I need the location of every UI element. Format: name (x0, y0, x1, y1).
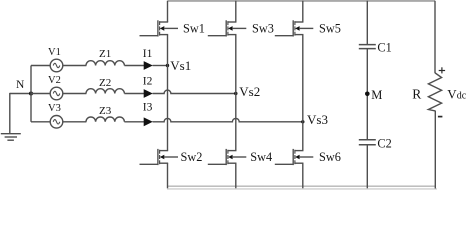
svg-text:Sw4: Sw4 (250, 150, 272, 164)
svg-text:V3: V3 (48, 103, 61, 114)
svg-text:Z1: Z1 (99, 48, 111, 60)
resistor R (428, 73, 441, 111)
svg-text:C2: C2 (377, 137, 391, 151)
wire V3 to Z3 (63, 121, 87, 123)
transistor Sw6 (292, 149, 294, 165)
svg-text:Sw5: Sw5 (319, 22, 341, 36)
svg-text:Z3: Z3 (99, 105, 112, 117)
current arrow I3 (144, 117, 153, 126)
svg-text:V1: V1 (48, 47, 61, 58)
wire Sw2 source to bottom bus (167, 163, 169, 188)
wire bus to V2 (31, 93, 50, 95)
svg-text:Vs1: Vs1 (170, 58, 191, 73)
node N (29, 92, 33, 96)
svg-text:Vs3: Vs3 (307, 112, 328, 127)
wire bus to Sw5 drain (302, 1, 304, 22)
svg-text:Sw1: Sw1 (183, 22, 205, 36)
node M (365, 92, 370, 97)
transistor Sw2 (157, 149, 159, 165)
wire bus to Sw1 drain (167, 1, 169, 22)
ac source V3 (50, 116, 63, 129)
svg-text:V2: V2 (48, 75, 61, 86)
svg-text:M: M (371, 88, 382, 102)
wire top bus to C1 (366, 1, 368, 44)
wire bottom DC bus (168, 185, 436, 187)
transistor Sw3 (225, 20, 227, 36)
wire Sw6 source to bottom bus (302, 163, 304, 188)
svg-text:I2: I2 (143, 75, 153, 87)
wire C2 to bottom bus (366, 145, 368, 188)
node Vs1 (166, 64, 169, 67)
wire Z3 out (124, 121, 144, 123)
transistor Sw4 (225, 149, 227, 165)
svg-text:Z2: Z2 (99, 77, 111, 89)
current arrow I2 (144, 89, 153, 98)
svg-text:N: N (16, 79, 25, 91)
wire Z1 out (124, 65, 144, 67)
wire source bus (30, 66, 32, 122)
svg-text:I1: I1 (143, 48, 153, 60)
wire Sw4 source to bottom bus (235, 163, 237, 188)
label + (Vdc polarity) (439, 70, 445, 72)
wire Sw1 source to Sw2 drain (167, 35, 169, 151)
wire bus to V1 (31, 65, 50, 67)
svg-text:Sw6: Sw6 (319, 150, 341, 164)
current arrow I1 (144, 61, 153, 70)
ac source V2 (50, 87, 63, 100)
wire Sw5 source to Sw6 drain (302, 35, 304, 151)
wire Z2 out (124, 93, 144, 95)
svg-text:dc: dc (457, 91, 467, 102)
wire C1 to C2 (366, 49, 368, 140)
wire bus to V3 (31, 121, 50, 123)
node Vs2 (234, 92, 237, 95)
wire phase A to Vs1 (153, 65, 168, 67)
wire Sw3 source to Sw4 drain (235, 35, 237, 151)
capacitor C1 (359, 44, 376, 46)
inductor Z1 (86, 61, 124, 66)
ac source V1 (50, 59, 63, 72)
ground (1, 133, 21, 135)
svg-text:V: V (447, 87, 457, 102)
wire phase B to Vs2 (153, 90, 236, 93)
transistor Sw5 (292, 20, 294, 36)
transistor Sw1 (157, 20, 159, 36)
wire V2 to Z2 (63, 93, 87, 95)
wire N to ground (10, 93, 31, 95)
svg-text:Vs2: Vs2 (239, 84, 260, 99)
capacitor C2 (359, 139, 376, 141)
node Vs3 (301, 120, 304, 123)
svg-text:R: R (412, 87, 421, 102)
wire top bus to R (434, 1, 436, 74)
wire phase C to Vs3 (153, 118, 303, 121)
wire bus to Sw3 drain (235, 1, 237, 22)
wire V1 to Z1 (63, 65, 87, 67)
wire R to bottom bus (434, 111, 436, 189)
wire top DC bus (168, 0, 436, 2)
inductor Z3 (86, 117, 124, 122)
label - (Vdc polarity) (438, 116, 443, 118)
svg-text:I3: I3 (143, 102, 153, 114)
svg-text:Sw2: Sw2 (181, 150, 203, 164)
svg-text:C1: C1 (377, 41, 391, 55)
svg-text:Sw3: Sw3 (252, 22, 274, 36)
inductor Z2 (86, 89, 124, 94)
